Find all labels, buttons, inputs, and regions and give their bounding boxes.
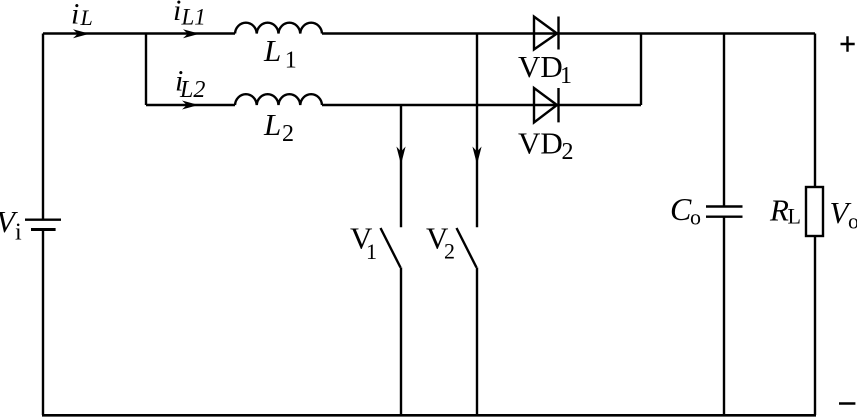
svg-text:R: R: [769, 192, 789, 227]
svg-text:i: i: [15, 220, 22, 246]
svg-text:1: 1: [285, 48, 297, 74]
svg-text:L: L: [788, 204, 801, 229]
svg-text:o: o: [848, 209, 857, 234]
svg-text:1: 1: [366, 239, 377, 264]
svg-text:L: L: [263, 33, 281, 68]
svg-text:L: L: [80, 5, 93, 30]
svg-text:2: 2: [562, 139, 574, 165]
svg-text:C: C: [670, 191, 692, 227]
svg-text:L1: L1: [181, 5, 206, 30]
svg-text:o: o: [690, 205, 701, 230]
svg-text:i: i: [71, 0, 79, 31]
svg-text:VD: VD: [518, 49, 563, 84]
svg-text:i: i: [173, 0, 181, 27]
svg-text:L2: L2: [179, 77, 205, 103]
svg-text:L: L: [263, 107, 281, 142]
svg-text:2: 2: [282, 121, 294, 147]
svg-text:2: 2: [444, 239, 455, 264]
svg-text:VD: VD: [518, 125, 563, 160]
svg-text:1: 1: [560, 63, 572, 89]
